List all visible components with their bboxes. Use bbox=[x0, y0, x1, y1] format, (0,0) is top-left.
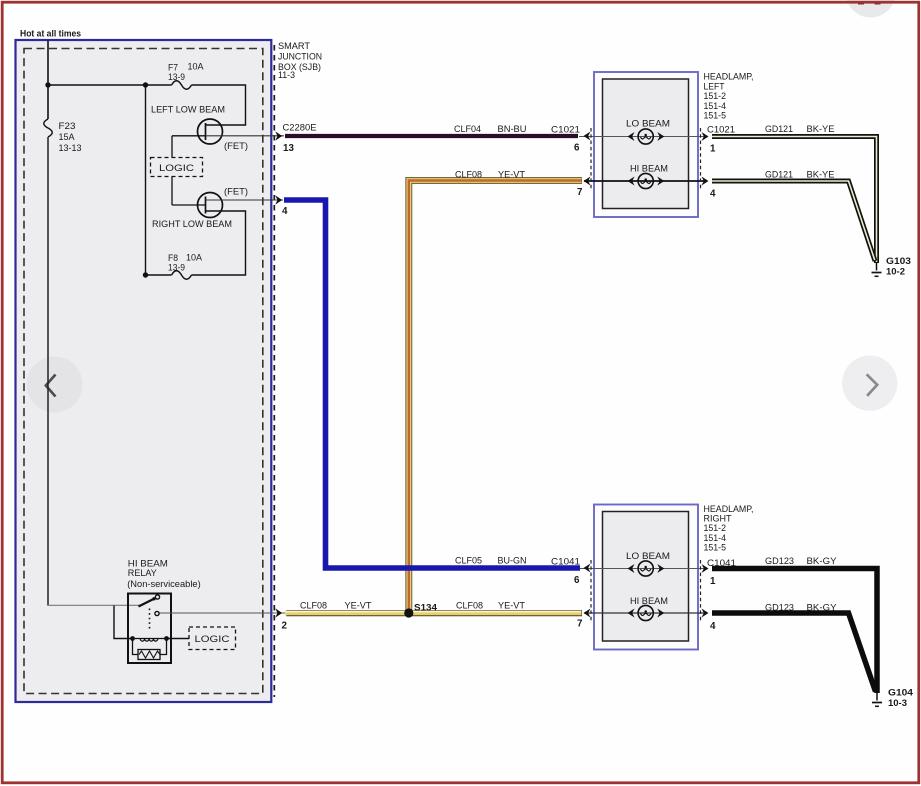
connector arrows right side (point right) bbox=[702, 132, 709, 141]
wire GD123 BK-GY bottom diagonal bbox=[712, 613, 876, 692]
top-right partially hidden round button bbox=[846, 0, 896, 18]
headlamp right outer box bbox=[594, 505, 698, 650]
svg-text:11-3: 11-3 bbox=[278, 70, 295, 80]
connector arrows right side bbox=[702, 564, 709, 573]
svg-text:SMART: SMART bbox=[278, 41, 310, 51]
wire CLF05 BU-GN blue bbox=[284, 200, 580, 568]
wire coil to logic2 bbox=[167, 638, 190, 640]
svg-text:7: 7 bbox=[577, 619, 583, 630]
svg-text:(Non-serviceable): (Non-serviceable) bbox=[127, 579, 201, 590]
svg-text:F23: F23 bbox=[59, 121, 76, 132]
svg-text:15A: 15A bbox=[59, 132, 76, 143]
transistor FET1 left low beam bbox=[198, 119, 223, 144]
svg-text:LOGIC: LOGIC bbox=[195, 634, 230, 645]
headlamp left outer box bbox=[594, 72, 698, 217]
svg-text:BU-GN: BU-GN bbox=[498, 556, 527, 567]
relay NO contact bbox=[155, 611, 159, 615]
fuse F7 bbox=[172, 81, 192, 90]
SJB inner dashed box bbox=[24, 49, 263, 694]
wire branch to coil bbox=[114, 606, 133, 639]
svg-text:10A: 10A bbox=[188, 62, 205, 73]
wire mid vertical bbox=[145, 85, 147, 275]
svg-text:13-9: 13-9 bbox=[168, 72, 185, 83]
svg-text:13: 13 bbox=[283, 143, 294, 154]
right nav button bbox=[842, 356, 897, 411]
wire bottom horizontal to fuse F8 bbox=[146, 274, 172, 276]
lamp HI BEAM left bbox=[638, 173, 653, 188]
svg-text:10-2: 10-2 bbox=[886, 267, 905, 278]
svg-text:LEFT LOW BEAM: LEFT LOW BEAM bbox=[151, 105, 225, 116]
svg-text:LO BEAM: LO BEAM bbox=[626, 119, 670, 130]
wire GD121 BK-YE top bbox=[712, 137, 877, 264]
connector arrows left side bbox=[584, 564, 591, 573]
svg-text:1: 1 bbox=[710, 576, 716, 587]
wire GD121 BK-YE bottom diagonal bbox=[712, 181, 875, 261]
svg-text:HI BEAM: HI BEAM bbox=[630, 164, 668, 175]
svg-text:BK-YE: BK-YE bbox=[807, 170, 835, 181]
svg-text:(FET): (FET) bbox=[224, 141, 248, 152]
relay K1 box bbox=[128, 594, 171, 664]
pin 2 arrow bbox=[275, 608, 282, 617]
svg-text:YE-VT: YE-VT bbox=[345, 601, 372, 612]
svg-text:C1021: C1021 bbox=[707, 125, 735, 136]
wire top horizontal to fuse F7 bbox=[48, 84, 172, 86]
wire: main bus vertical bbox=[47, 41, 49, 120]
pin 13 arrow bbox=[275, 131, 282, 140]
ground G103 bbox=[876, 263, 878, 271]
wire riser logic to FET1 gate bbox=[171, 136, 173, 158]
wire CLF04 BN-BU maroon bbox=[285, 134, 578, 138]
svg-text:GD123: GD123 bbox=[765, 556, 794, 567]
fuse F23 bbox=[44, 119, 53, 137]
svg-text:LO BEAM: LO BEAM bbox=[626, 551, 670, 562]
connector dashes left bbox=[590, 128, 592, 190]
pin 4 arrow bbox=[275, 195, 282, 204]
svg-text:4: 4 bbox=[282, 206, 288, 217]
wire bus continue bbox=[47, 137, 49, 606]
svg-text:6: 6 bbox=[574, 575, 580, 586]
svg-text:CLF04: CLF04 bbox=[454, 124, 481, 135]
svg-text:10-3: 10-3 bbox=[888, 698, 907, 709]
svg-text:1: 1 bbox=[710, 144, 716, 155]
wire lo beam thin bbox=[580, 568, 704, 570]
svg-text:RELAY: RELAY bbox=[128, 568, 158, 579]
wire relay contact to pin 2 bbox=[160, 612, 286, 614]
wire CLF08 YE-VT orange vertical+top bbox=[409, 181, 582, 613]
node junction at bus top bbox=[45, 82, 50, 87]
svg-text:4: 4 bbox=[710, 621, 716, 632]
svg-text:151-5: 151-5 bbox=[704, 543, 727, 554]
node junction left mid bbox=[143, 82, 148, 87]
svg-text:CLF08: CLF08 bbox=[300, 601, 327, 612]
logic box upper bbox=[151, 158, 203, 177]
ground G104 bbox=[876, 693, 878, 701]
svg-text:GD121: GD121 bbox=[765, 170, 793, 181]
left nav button bbox=[27, 357, 83, 413]
svg-text:C2280E: C2280E bbox=[283, 123, 317, 134]
wire riser logic to FET2 gate bbox=[171, 177, 173, 206]
svg-text:4: 4 bbox=[710, 189, 716, 200]
svg-text:GD123: GD123 bbox=[765, 603, 794, 614]
node S134 bbox=[404, 608, 413, 617]
svg-text:C1021: C1021 bbox=[551, 125, 580, 136]
relay switch arm bbox=[139, 599, 154, 607]
headlamp left inner box bbox=[603, 79, 689, 209]
lamp HI BEAM right bbox=[638, 605, 653, 620]
headlamp right inner box bbox=[603, 512, 689, 642]
wire GD123 BK-GY top bbox=[712, 569, 877, 694]
svg-text:YE-VT: YE-VT bbox=[498, 601, 525, 612]
fuse F8 bbox=[172, 271, 192, 280]
svg-text:G104: G104 bbox=[888, 688, 914, 699]
relay coil bbox=[133, 638, 167, 640]
svg-text:151-5: 151-5 bbox=[704, 111, 727, 122]
svg-text:BK-GY: BK-GY bbox=[807, 603, 838, 614]
logic box lower bbox=[189, 627, 236, 650]
connector C2280E dashed line bbox=[273, 45, 275, 697]
svg-text:JUNCTION: JUNCTION bbox=[278, 52, 322, 62]
svg-text:10A: 10A bbox=[186, 253, 203, 264]
svg-text:BN-BU: BN-BU bbox=[498, 124, 527, 135]
wire F8 to corner up to FET2 bbox=[192, 211, 246, 275]
svg-text:GD121: GD121 bbox=[765, 124, 793, 135]
svg-text:YE-VT: YE-VT bbox=[498, 170, 525, 181]
wire hi beam thin bbox=[584, 612, 704, 614]
wire CLF08 YE-VT yellow bottom bbox=[286, 610, 582, 616]
svg-text:RIGHT LOW BEAM: RIGHT LOW BEAM bbox=[152, 219, 232, 230]
node junction bottom bbox=[143, 272, 148, 277]
lamp LO BEAM right bbox=[638, 561, 653, 576]
svg-text:CLF08: CLF08 bbox=[456, 601, 483, 612]
svg-text:S134: S134 bbox=[414, 603, 438, 614]
svg-text:7: 7 bbox=[577, 187, 583, 198]
resistor parallel with coil bbox=[133, 639, 139, 655]
svg-text:6: 6 bbox=[574, 143, 580, 154]
svg-text:13-9: 13-9 bbox=[168, 263, 185, 274]
wire F7 to corner and down to FET1 bbox=[192, 85, 246, 125]
lamp LO BEAM left bbox=[638, 129, 653, 144]
svg-text:CLF08: CLF08 bbox=[455, 170, 482, 181]
connector dashes bbox=[590, 560, 592, 622]
svg-text:LOGIC: LOGIC bbox=[159, 163, 194, 174]
wire lo beam thin bbox=[579, 136, 704, 138]
svg-text:2: 2 bbox=[282, 621, 288, 632]
svg-text:CLF05: CLF05 bbox=[455, 556, 482, 567]
relay actuator dotted bbox=[149, 609, 151, 632]
connector arrows left side (point left) bbox=[584, 132, 591, 141]
svg-text:Hot at all times: Hot at all times bbox=[20, 29, 81, 39]
smart junction box SJB outline bbox=[16, 40, 272, 702]
svg-text:13-13: 13-13 bbox=[59, 143, 82, 154]
svg-text:BK-YE: BK-YE bbox=[807, 124, 835, 135]
wire hi beam thin bbox=[584, 180, 704, 182]
svg-text:(FET): (FET) bbox=[224, 187, 248, 198]
svg-text:BK-GY: BK-GY bbox=[807, 556, 838, 567]
svg-text:C1041: C1041 bbox=[551, 557, 580, 568]
svg-text:G103: G103 bbox=[886, 256, 911, 267]
